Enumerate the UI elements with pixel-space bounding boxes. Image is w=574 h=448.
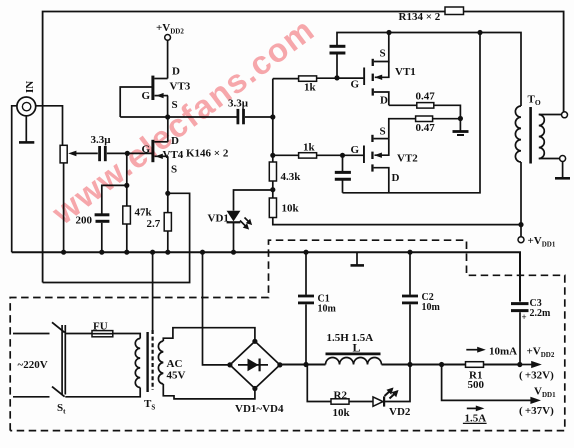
svg-text:0.47: 0.47 xyxy=(416,91,436,103)
svg-text:G: G xyxy=(351,144,360,156)
resistor 47k xyxy=(123,206,131,224)
ground at 0.47 junction xyxy=(453,119,469,135)
label S VT1 xyxy=(380,48,386,60)
resistor 0.47 lower xyxy=(416,116,433,122)
node bus pot xyxy=(61,250,66,255)
wire 47k to bus xyxy=(126,224,128,252)
label 3.3u input xyxy=(91,134,112,146)
ground at output terminal xyxy=(555,162,570,179)
LED VD1 xyxy=(227,211,251,229)
svg-text:10m: 10m xyxy=(422,302,441,313)
label 200 xyxy=(76,215,93,227)
wire 0.47 lower to VT2 source xyxy=(389,119,416,139)
wire To secondary top to terminal xyxy=(539,114,562,116)
resistor R1 xyxy=(466,362,484,368)
label L xyxy=(353,341,361,355)
node VT2 gate junction xyxy=(340,153,345,158)
svg-text:10k: 10k xyxy=(333,407,351,419)
wire ground bus xyxy=(12,252,520,301)
terminal output top xyxy=(562,112,568,118)
transformer Ts secondary xyxy=(158,341,163,384)
svg-text:R2: R2 xyxy=(334,390,348,402)
transformer Ts core solid xyxy=(146,332,148,392)
svg-text:D: D xyxy=(172,66,180,78)
svg-text:1k: 1k xyxy=(304,82,317,94)
node VD1 branch junction xyxy=(270,187,275,192)
label +VDD2 out xyxy=(527,346,555,360)
ground under IN jack xyxy=(19,116,34,143)
capacitor VT2 gate xyxy=(335,155,351,193)
label S VT4 xyxy=(171,164,177,176)
label 47k xyxy=(135,207,153,219)
wire top feedback rail xyxy=(43,12,564,283)
transformer To secondary xyxy=(539,115,545,159)
switch St xyxy=(52,322,65,396)
inductor L xyxy=(326,358,382,365)
label 4.3k xyxy=(281,171,302,183)
terminal +VDD2 xyxy=(165,35,171,41)
svg-text:G: G xyxy=(351,79,360,91)
label C1 xyxy=(318,294,337,315)
wire VT3 source to node xyxy=(167,96,169,117)
wire 0.47 upper right xyxy=(434,105,461,118)
node bias low junction xyxy=(270,153,275,158)
label G VT1 xyxy=(351,79,360,91)
svg-text:S: S xyxy=(171,164,177,176)
label 10mA xyxy=(489,346,517,358)
label G VT3 xyxy=(142,90,151,102)
wiper arrow of potentiometer xyxy=(68,151,98,157)
label +37V xyxy=(519,405,554,417)
svg-text:VD1: VD1 xyxy=(208,213,229,225)
wire VT1 drain to 0.47 xyxy=(389,104,417,106)
node VT1 gate junction xyxy=(334,75,339,80)
svg-text:K146 × 2: K146 × 2 xyxy=(186,148,229,160)
node rail C1 xyxy=(303,362,308,367)
wire to upper 1k xyxy=(273,78,299,80)
wire feedback bottom loop xyxy=(43,193,190,282)
transformer To primary xyxy=(515,106,521,162)
node VT4 source junction xyxy=(165,191,170,196)
svg-text:47k: 47k xyxy=(135,207,153,219)
svg-text:VDD1: VDD1 xyxy=(534,386,556,400)
svg-text:VD1~VD4: VD1~VD4 xyxy=(235,403,284,415)
wire bias vertical bus xyxy=(272,79,274,162)
label G VT4 xyxy=(142,144,151,156)
svg-text:4.3k: 4.3k xyxy=(281,171,302,183)
label VT2 xyxy=(397,153,418,165)
label 10k R2 xyxy=(333,407,351,419)
wire VT1 gate xyxy=(337,77,363,79)
wire switch to fuse xyxy=(65,333,92,335)
label VD2 xyxy=(389,406,411,418)
wire VT2 drain to output riser xyxy=(343,33,481,193)
potentiometer RP xyxy=(60,145,67,163)
ground stub on bus xyxy=(351,252,365,265)
resistor 4.3k xyxy=(269,162,276,181)
label D VT2 xyxy=(392,172,400,184)
svg-text:( +32V): ( +32V) xyxy=(519,370,554,382)
label 1k upper xyxy=(304,82,317,94)
node bus 200cap xyxy=(99,250,104,255)
node bus 2.7 xyxy=(165,250,170,255)
wire To primary bottom to VDD1 rail xyxy=(520,162,522,237)
wire R2 to VD2 xyxy=(349,401,373,403)
label VD1 xyxy=(208,213,229,225)
svg-text:+VDD2: +VDD2 xyxy=(527,346,555,360)
label St xyxy=(57,402,66,416)
node VT1 source on rail xyxy=(386,30,391,35)
wire bridge negative to ground bus xyxy=(203,252,230,365)
label D VT4 xyxy=(171,135,179,147)
wire mains bottom xyxy=(13,396,50,398)
svg-text:R134 × 2: R134 × 2 xyxy=(399,11,441,23)
terminal +VDD1 xyxy=(518,237,524,243)
label To xyxy=(528,94,541,108)
label S VT3 xyxy=(172,99,178,111)
transformer Ts primary xyxy=(135,338,140,387)
wire VD1 to bus xyxy=(233,222,235,252)
node rail C3 out xyxy=(517,362,522,367)
watermark xyxy=(45,10,322,232)
wire R2 branch xyxy=(307,365,331,402)
svg-text:FU: FU xyxy=(93,321,108,333)
label D VT3 xyxy=(172,66,180,78)
resistor 1k upper xyxy=(299,76,317,81)
capacitor 3.3u mid xyxy=(238,109,244,124)
label IN xyxy=(24,81,36,93)
wire gate bias chain down xyxy=(126,153,128,206)
resistor 0.47 upper xyxy=(417,103,434,109)
node bus VD1 xyxy=(231,250,236,255)
label 1.5A xyxy=(463,413,487,425)
arrow 1.5A xyxy=(467,406,485,412)
terminal output bottom xyxy=(560,156,566,162)
svg-text:IN: IN xyxy=(24,81,36,93)
wire 0.47 lower right xyxy=(433,118,461,120)
wire 1k lower to VT2 gate xyxy=(317,154,364,156)
wire VDD2 to VT3 drain xyxy=(167,40,169,78)
node rail R1 left xyxy=(439,362,444,367)
wire 1k upper to VT1 gate xyxy=(317,77,364,79)
label 2.7 xyxy=(147,218,161,230)
label VT4 xyxy=(163,149,184,161)
label Ts xyxy=(144,398,155,412)
resistor R2 xyxy=(331,399,349,404)
label FU xyxy=(93,321,108,333)
svg-text:10m: 10m xyxy=(318,304,337,315)
wire To secondary bottom to terminal xyxy=(539,158,560,160)
node output riser on rail xyxy=(477,30,482,35)
label G VT2 xyxy=(351,144,360,156)
node bus 47k xyxy=(124,250,129,255)
transistor VT1 xyxy=(363,33,389,106)
svg-text:10k: 10k xyxy=(282,203,300,215)
wire mid cap to bias bus xyxy=(245,116,273,118)
node bus shield xyxy=(150,250,155,255)
node rail C2 xyxy=(407,362,412,367)
svg-text:~220V: ~220V xyxy=(18,359,48,371)
label 3.3u mid xyxy=(228,98,249,110)
wire potentiometer bottom to bus xyxy=(63,163,65,252)
wire 2.7 to bus xyxy=(167,231,169,252)
label plus C3 xyxy=(522,312,527,322)
bridge rectifier VD1-VD4 xyxy=(227,339,282,391)
wire fuse to Ts primary xyxy=(113,334,140,339)
transistor VT4 xyxy=(153,140,168,162)
svg-text:+VDD1: +VDD1 xyxy=(528,235,556,249)
resistor R134x2 xyxy=(445,7,464,15)
svg-text:TS: TS xyxy=(144,398,155,412)
node 200 cap branch xyxy=(124,183,129,188)
label +VDD2 xyxy=(156,22,184,36)
fuse FU xyxy=(92,331,113,337)
svg-text:S: S xyxy=(380,48,386,60)
wire node row to mid cap xyxy=(120,116,236,118)
wire 200 cap to bus xyxy=(101,223,103,252)
label 0.47 upper xyxy=(416,91,436,103)
label R2 xyxy=(334,390,348,402)
svg-text:D: D xyxy=(380,95,388,107)
wire to capacitor 200 xyxy=(102,185,127,213)
svg-text:D: D xyxy=(392,172,400,184)
svg-text:G: G xyxy=(142,90,151,102)
label 500 xyxy=(468,379,485,391)
label K146x2 xyxy=(186,148,229,160)
capacitor 200 xyxy=(95,215,110,222)
wire jack right to potentiometer xyxy=(36,106,63,146)
node VT3 source junction xyxy=(165,114,170,119)
LED VD2 xyxy=(373,389,397,407)
svg-text:( +37V): ( +37V) xyxy=(519,405,554,417)
wire shield to ground bus xyxy=(152,252,154,330)
wire Ts secondary bottom to bridge xyxy=(163,384,255,399)
wire VD2 to C2 node xyxy=(384,365,410,402)
svg-text:S: S xyxy=(380,126,386,138)
dashed power supply box xyxy=(10,240,565,430)
resistor 2.7 xyxy=(164,213,171,231)
label VD1-VD4 xyxy=(235,403,284,415)
svg-text:VD2: VD2 xyxy=(389,406,411,418)
capacitor C3 xyxy=(511,304,529,365)
label D VT1 xyxy=(380,95,388,107)
svg-text:St: St xyxy=(57,402,66,416)
svg-text:AC: AC xyxy=(167,358,183,370)
capacitor VT1 gate xyxy=(330,46,346,78)
capacitor C1 xyxy=(298,252,314,364)
svg-text:2.7: 2.7 xyxy=(147,218,161,230)
wire positive DC rail xyxy=(280,364,520,366)
wire VT4 drain riser xyxy=(167,117,169,142)
wire Ts secondary top to bridge xyxy=(163,328,255,342)
label 1k lower xyxy=(303,142,316,154)
wire Ts primary bottom to switch xyxy=(65,388,140,397)
label 1.5H 1.5A xyxy=(327,332,374,344)
transformer To core xyxy=(529,107,532,164)
svg-text:VT3: VT3 xyxy=(170,81,191,93)
svg-text:+VDD2: +VDD2 xyxy=(156,22,184,36)
arrow output +32V xyxy=(520,361,542,368)
core bar of L xyxy=(326,352,381,355)
capacitor C2 xyxy=(402,252,418,364)
wire 10k to VDD1 rail xyxy=(273,218,521,225)
svg-text:+: + xyxy=(522,312,527,322)
node bus bridge xyxy=(200,250,205,255)
label C3 xyxy=(530,298,552,319)
wire VT4 source down xyxy=(167,156,169,212)
wire output node rail xyxy=(337,33,521,107)
resistor 1k lower xyxy=(299,153,317,158)
wire jack left to ground bus xyxy=(12,106,17,252)
label +VDD1 xyxy=(528,235,556,249)
label AC 45V xyxy=(167,358,186,382)
svg-text:0.47: 0.47 xyxy=(416,122,436,134)
node 0.47 junction xyxy=(458,116,463,121)
svg-text:1.5H 1.5A: 1.5H 1.5A xyxy=(327,332,374,344)
transformer Ts core shield dashed xyxy=(152,330,154,390)
svg-text:VT2: VT2 xyxy=(397,153,418,165)
label C2 xyxy=(422,292,441,313)
wire mains top xyxy=(13,333,50,335)
connector IN jack xyxy=(17,97,36,116)
capacitor 3.3u input xyxy=(100,146,106,161)
label VDD1 out xyxy=(534,386,556,400)
node bus C2 xyxy=(407,250,412,255)
node bias top junction xyxy=(270,114,275,119)
arrow 10mA xyxy=(466,347,486,353)
node VT4 gate junction xyxy=(125,151,130,156)
label VT1 xyxy=(395,66,416,78)
node bus C1 xyxy=(303,250,308,255)
wire to lower 1k xyxy=(273,154,299,156)
wire cap to VT4 gate xyxy=(107,152,152,154)
wire 4.3k to 10k xyxy=(272,181,274,198)
label S VT2 xyxy=(380,126,386,138)
svg-text:VT1: VT1 xyxy=(395,66,416,78)
node To primary on VDD1 rail xyxy=(518,222,523,227)
svg-text:10mA: 10mA xyxy=(489,346,517,358)
transistor VT3 xyxy=(120,76,168,117)
svg-text:2.2m: 2.2m xyxy=(530,308,552,319)
svg-text:1k: 1k xyxy=(303,142,316,154)
label 10k bias xyxy=(282,203,300,215)
label R134x2 xyxy=(399,11,441,23)
resistor 10k bias xyxy=(269,198,276,218)
svg-text:45V: 45V xyxy=(167,370,186,382)
svg-text:1.5A: 1.5A xyxy=(465,413,487,425)
svg-text:TO: TO xyxy=(528,94,541,108)
label +32V xyxy=(519,370,554,382)
transistor VT2 xyxy=(363,135,389,193)
wire 37V output xyxy=(442,365,541,405)
label 0.47 lower xyxy=(416,122,436,134)
label R1 xyxy=(469,370,482,382)
label ~220V xyxy=(18,359,48,371)
svg-text:500: 500 xyxy=(468,379,485,391)
label VT3 xyxy=(170,81,191,93)
svg-text:3.3μ: 3.3μ xyxy=(91,134,112,146)
wire VD1 branch xyxy=(234,190,273,211)
